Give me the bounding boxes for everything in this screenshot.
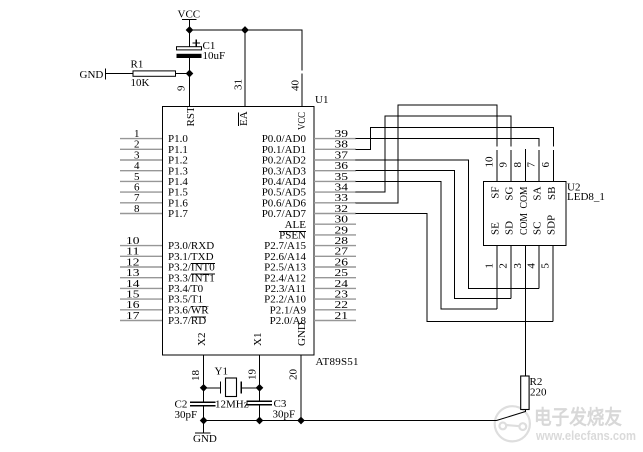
display pin 4 wire (SC) [538,246,540,289]
pin 16 stub (left, P3.6/WR) [120,309,162,311]
svg-text:SDP: SDP [545,215,557,235]
svg-text:8: 8 [512,162,524,168]
svg-text:电子发烧友: 电子发烧友 [534,405,622,429]
wire P0.0 (pin 39) to display SA (pin 7) [356,139,540,147]
svg-text:RST: RST [185,106,197,126]
wire EA column (pin 31) [244,30,246,106]
pin 12 stub (left, P3.2/INT0) [120,266,162,268]
svg-text:GND: GND [193,433,217,445]
svg-text:X2: X2 [196,333,208,346]
svg-text:10uF: 10uF [203,50,226,62]
junction rail / C2 [200,417,208,425]
wire P0.1 (pin 38) to display SB (pin 6) [356,127,554,149]
display pin 10 stub (SF) [496,150,498,182]
svg-text:SD: SD [503,221,515,235]
pin 25 stub (right, P2.4/A12) [314,277,356,279]
pin 15 stub (left, P3.5/T1) [120,298,162,300]
svg-text:AT89S51: AT89S51 [316,356,359,368]
pin 30 stub (right, ALE) [314,223,356,225]
wire VCC column (pin 40) [301,74,303,107]
pin 24 stub (right, P2.3/A11) [314,287,356,289]
resistor R2 220 [521,376,547,410]
pin 17 stub (left, P3.7/RD) [120,320,162,322]
svg-text:21: 21 [335,310,349,322]
svg-text:20: 20 [288,369,300,381]
capacitor C2 30pF [175,399,216,422]
svg-text:SA: SA [531,186,543,200]
pin 7 stub (left, P1.6) [120,202,162,204]
svg-text:VCC: VCC [296,112,308,130]
ground symbol GND (bottom) [193,421,217,446]
pin 32 stub (right, P0.7/AD7) [314,213,356,215]
junction VCC rail / EA column [241,26,249,34]
pin 26 stub (right, P2.5/A13) [314,266,356,268]
wire P0.5 (pin 34) to display SG (pin 9) [356,116,512,192]
wire P0.6 (pin 33) to display SF (pin 10) [356,105,498,203]
svg-text:9: 9 [498,162,510,168]
svg-text:LED8_1: LED8_1 [567,191,605,203]
junction crystal / X1 column [256,384,264,392]
svg-text:6: 6 [540,162,552,168]
svg-text:30pF: 30pF [273,409,296,421]
pin 8 stub (left, P1.7) [120,213,162,215]
pin 34 stub (right, P0.5/AD5) [314,191,356,193]
pin 28 stub (right, P2.7/A15) [314,245,356,247]
pin 35 stub (right, P0.4/AD4) [314,180,356,182]
display pin 1 wire (SE) [496,246,498,309]
pin 11 stub (left, P3.1/TXD) [120,255,162,257]
wire ground rail [204,420,497,422]
svg-text:7: 7 [526,162,538,168]
svg-text:U1: U1 [315,94,328,106]
svg-text:4: 4 [526,263,538,269]
svg-text:GND: GND [80,69,104,81]
display pin 8 stub (COM, unconnected top) [525,149,527,182]
wire P0.3 (pin 36) to display SD (pin 2) [356,171,512,299]
pin 36 stub (right, P0.3/AD3) [314,170,356,172]
IC U1 AT89S51 box [163,107,315,356]
watermark logo circle [495,406,530,441]
pin 21 stub (right, P2.0/A8) [314,320,356,322]
ground port GND (left of R1) [80,69,106,82]
pin 22 stub (right, P2.1/A9) [314,309,356,311]
pin 1 stub (left, P1.0) [120,138,162,140]
display pin 5 wire (SDP) [552,246,554,322]
svg-text:X1: X1 [252,333,264,346]
svg-text:5: 5 [540,263,552,269]
svg-text:10K: 10K [131,77,150,89]
pin 33 stub (right, P0.6/AD6) [314,202,356,204]
svg-text:220: 220 [530,387,547,399]
svg-text:10: 10 [484,156,496,168]
wire X2 column (pin 18) [203,355,205,402]
wire R1 to RST node [176,73,190,75]
pin 14 stub (left, P3.4/T0) [120,287,162,289]
svg-text:SG: SG [503,186,515,200]
junction rail / GND pin 20 [297,417,305,425]
wire P0.2 (pin 37) to display SC (pin 4) [356,160,540,288]
display pin 6 stub (SB) [553,150,555,182]
svg-text:EA: EA [238,111,250,126]
svg-text:3: 3 [512,263,524,269]
pin 5 stub (left, P1.4) [120,180,162,182]
capacitor C1 10uF (electrolytic) [177,30,226,74]
wire X2 to crystal left plate [204,387,221,389]
svg-text:P1.7: P1.7 [168,208,188,220]
svg-text:COM: COM [518,213,530,235]
junction crystal / X2 column [200,384,208,392]
pin 3 stub (left, P1.2) [120,159,162,161]
junction VCC rail / RST column [186,26,194,34]
pin 23 stub (right, P2.2/A10) [314,298,356,300]
wire P0.4 (pin 35) to display SE (pin 1) [356,181,498,308]
svg-text:P2.0/A8: P2.0/A8 [270,315,307,327]
wire RST column (pin 9) [189,58,191,106]
display pin 9 stub (SG) [510,150,512,182]
svg-text:VCC: VCC [178,9,201,21]
display pin 7 stub (SA) [538,150,540,182]
svg-text:18: 18 [190,370,202,382]
pin 37 stub (right, P0.2/AD2) [314,159,356,161]
svg-text:SC: SC [531,222,543,235]
power symbol VCC [178,9,201,31]
svg-text:12MHz: 12MHz [215,399,249,411]
svg-text:40: 40 [290,80,302,92]
wire GND column (pin 20) [300,355,302,421]
display pin 2 wire (SD) [510,246,512,299]
pin 39 stub (right, P0.0/AD0) [314,138,356,140]
wire R2 bottom to ground rail (diagonal) [497,410,526,421]
wire C2 bottom to rail [203,406,205,421]
pin 4 stub (left, P1.3) [120,170,162,172]
crystal Y1 [215,366,249,411]
svg-text:SE: SE [489,222,501,235]
display pin 3 wire (COM) to R2 [525,246,527,377]
wire VCC rail to pin 40 [190,30,303,71]
svg-text:1: 1 [484,263,496,269]
svg-text:8: 8 [134,203,140,215]
svg-text:17: 17 [126,310,140,322]
pin 27 stub (right, P2.6/A14) [314,255,356,257]
wire crystal right plate to X1 [241,387,259,389]
pin 38 stub (right, P0.1/AD1) [314,148,356,150]
wire C3 bottom to rail [259,405,261,421]
pin 29 stub (right, PSEN) [314,234,356,236]
wire GND port to R1 [106,73,134,75]
svg-text:COM: COM [518,186,530,208]
pin 6 stub (left, P1.5) [120,191,162,193]
svg-text:Y1: Y1 [215,366,228,378]
pin 13 stub (left, P3.3/INT1) [120,277,162,279]
junction R1 / RST column [186,70,194,78]
wire X1 column (pin 19) [259,355,261,401]
capacitor C3 30pF [247,398,296,421]
svg-text:SF: SF [489,187,501,199]
svg-text:9: 9 [176,85,188,91]
pin 10 stub (left, P3.0/RXD) [120,245,162,247]
svg-text:30pF: 30pF [175,409,198,421]
resistor R1 10K [131,59,176,89]
svg-text:www.elecfans.com: www.elecfans.com [535,429,636,443]
display U2 LED8_1 box [484,182,567,246]
svg-text:R1: R1 [131,59,144,71]
pin 2 stub (left, P1.1) [120,148,162,150]
junction rail / C3 [256,417,264,425]
svg-text:2: 2 [498,263,510,269]
svg-text:SB: SB [546,187,558,200]
wire P0.7 (pin 32) to display SDP (pin 5) [356,214,554,322]
svg-text:19: 19 [247,369,259,381]
svg-text:31: 31 [233,79,245,90]
